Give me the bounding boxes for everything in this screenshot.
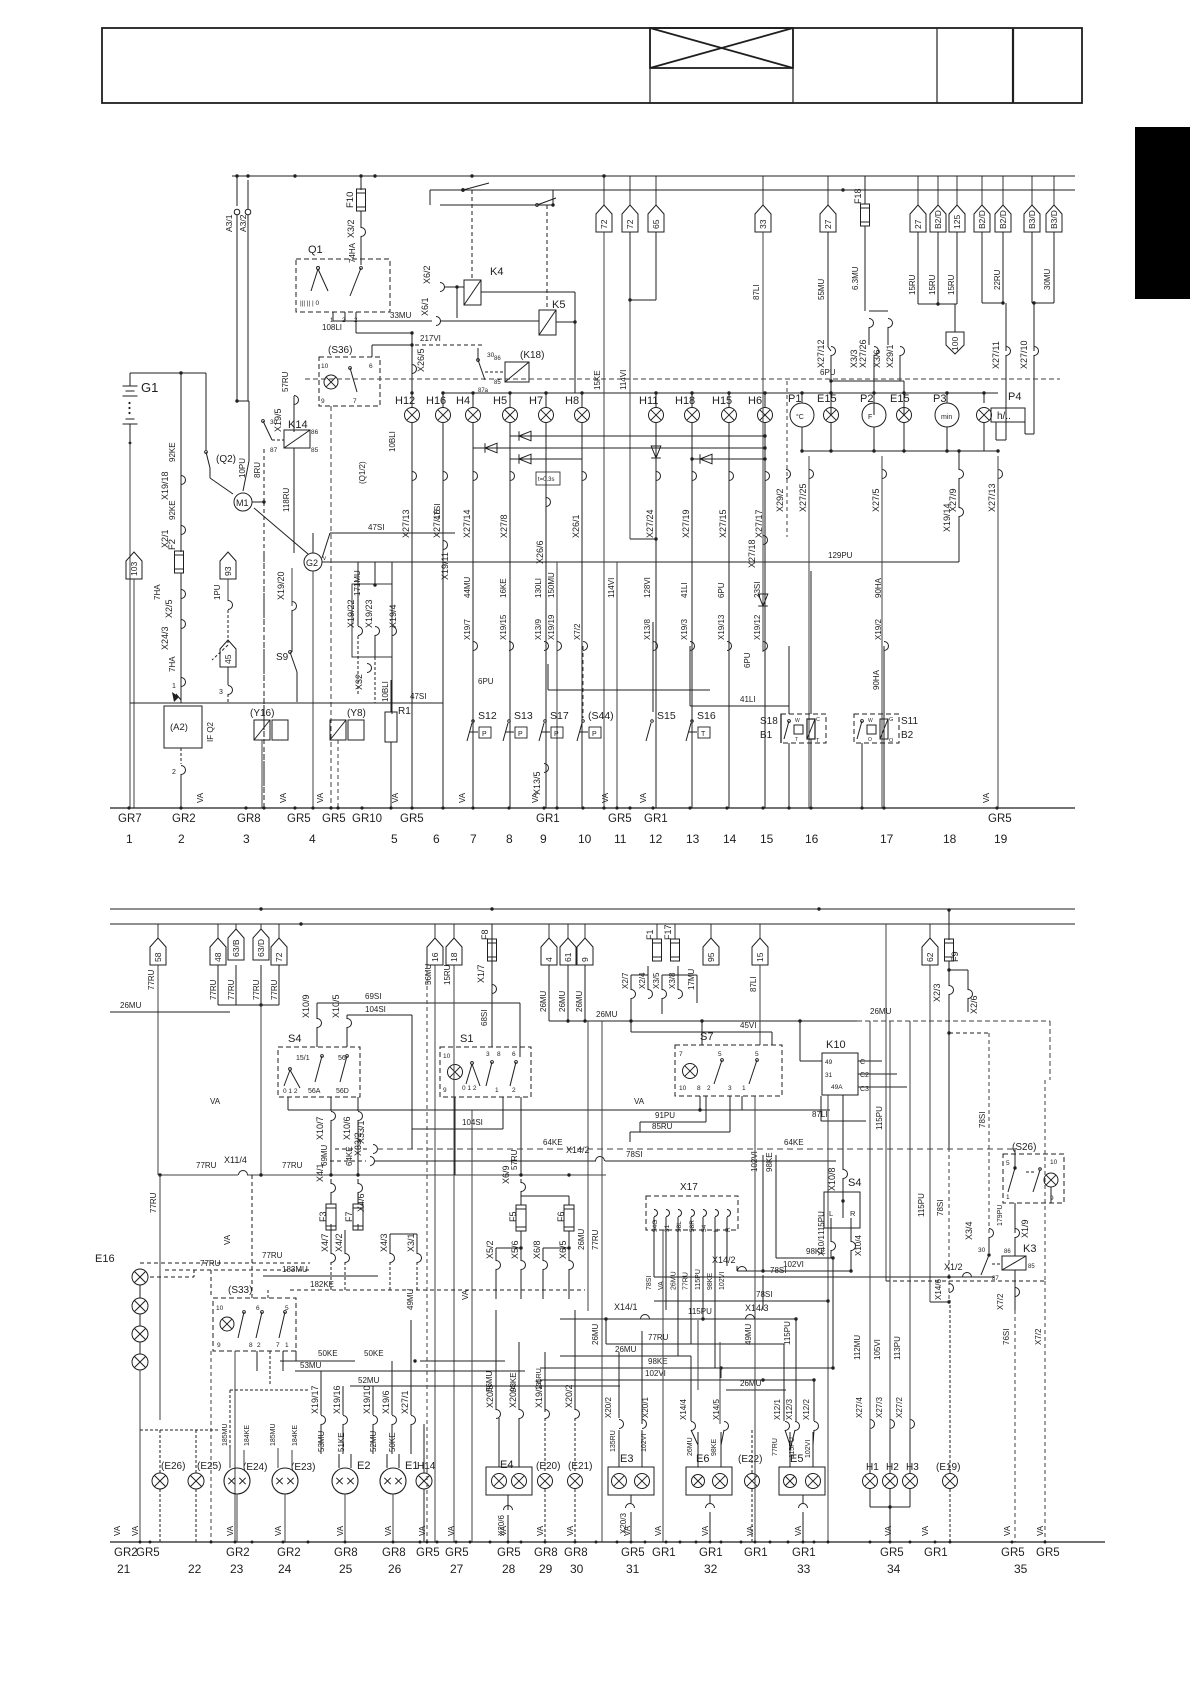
svg-text:L: L	[829, 1209, 833, 1218]
svg-text:31: 31	[825, 1072, 833, 1079]
svg-text:49MU: 49MU	[406, 1288, 415, 1310]
svg-text:33MU: 33MU	[390, 311, 412, 320]
svg-text:15: 15	[755, 952, 765, 962]
svg-text:VA: VA	[499, 1525, 508, 1536]
svg-text:GR1: GR1	[924, 1547, 948, 1559]
svg-text:27: 27	[450, 1562, 464, 1576]
svg-text:185MU: 185MU	[222, 1423, 229, 1446]
svg-text:12: 12	[649, 832, 663, 846]
svg-text:GR5: GR5	[287, 813, 311, 825]
svg-text:4: 4	[544, 957, 554, 962]
svg-text:X2/3: X2/3	[932, 983, 942, 1002]
svg-text:H4: H4	[456, 395, 470, 407]
svg-text:X27/11: X27/11	[991, 341, 1001, 369]
svg-text:H14: H14	[417, 1461, 436, 1472]
svg-text:30MU: 30MU	[1043, 268, 1052, 290]
svg-text:(S36): (S36)	[328, 345, 352, 356]
svg-text:S9: S9	[276, 652, 289, 663]
svg-text:135RU: 135RU	[610, 1430, 617, 1452]
svg-text:X13/8: X13/8	[643, 619, 652, 640]
svg-text:S4: S4	[848, 1177, 861, 1189]
svg-text:(Q1/2): (Q1/2)	[358, 461, 367, 484]
svg-text:25: 25	[339, 1562, 353, 1576]
svg-text:(E25): (E25)	[197, 1461, 221, 1472]
svg-text:115PU: 115PU	[789, 1437, 796, 1458]
svg-text:9: 9	[580, 957, 590, 962]
svg-text:15RU: 15RU	[908, 274, 917, 295]
svg-text:77RU: 77RU	[648, 1333, 669, 1342]
svg-text:B3/D: B3/D	[1049, 210, 1059, 229]
svg-text:P: P	[482, 731, 487, 738]
svg-text:GR8: GR8	[382, 1547, 406, 1559]
svg-text:F3: F3	[318, 1211, 328, 1222]
svg-text:GR5: GR5	[1001, 1547, 1025, 1559]
svg-text:C2: C2	[860, 1072, 869, 1079]
svg-text:X11/4: X11/4	[224, 1155, 247, 1165]
svg-text:85RU: 85RU	[652, 1122, 673, 1131]
svg-text:6: 6	[512, 1051, 516, 1058]
svg-text:87a: 87a	[478, 388, 489, 394]
svg-text:9: 9	[540, 832, 547, 846]
svg-text:26: 26	[388, 1562, 402, 1576]
svg-text:C: C	[860, 1059, 865, 1066]
svg-text:77RU: 77RU	[209, 979, 218, 1000]
svg-text:10BLI: 10BLI	[388, 431, 397, 452]
svg-text:26MU: 26MU	[558, 990, 567, 1012]
svg-text:104SI: 104SI	[365, 1005, 386, 1014]
svg-text:45: 45	[223, 654, 233, 664]
svg-text:GR8: GR8	[564, 1547, 588, 1559]
svg-text:7: 7	[470, 832, 477, 846]
svg-text:VA: VA	[794, 1525, 803, 1536]
svg-text:9: 9	[217, 1342, 221, 1349]
svg-text:P: P	[518, 731, 523, 738]
svg-text:VA: VA	[210, 1097, 221, 1106]
svg-text:64KE: 64KE	[543, 1138, 563, 1147]
svg-text:22: 22	[188, 1562, 202, 1576]
svg-text:6PU: 6PU	[743, 652, 752, 668]
svg-text:VA: VA	[884, 1525, 893, 1536]
svg-text:X19/10: X19/10	[362, 1385, 372, 1414]
svg-text:B2/D: B2/D	[933, 210, 943, 229]
svg-text:X19/2: X19/2	[874, 619, 883, 640]
svg-text:77RU: 77RU	[683, 1272, 690, 1290]
svg-text:26MU: 26MU	[740, 1379, 762, 1388]
svg-text:5: 5	[1006, 1160, 1010, 1167]
svg-text:26MU: 26MU	[870, 1007, 892, 1016]
svg-text:X27/26: X27/26	[858, 339, 868, 368]
svg-text:VA: VA	[639, 792, 648, 803]
svg-text:1: 1	[172, 683, 176, 690]
svg-text:X32: X32	[354, 674, 364, 690]
svg-text:VA: VA	[223, 1234, 232, 1245]
svg-text:29: 29	[539, 1562, 553, 1576]
svg-text:5: 5	[391, 832, 398, 846]
svg-text:VA: VA	[746, 1525, 755, 1536]
svg-text:125: 125	[952, 215, 962, 229]
svg-text:X1/7: X1/7	[476, 964, 486, 983]
svg-text:10: 10	[679, 1085, 687, 1092]
svg-text:26MU: 26MU	[577, 1228, 586, 1250]
svg-text:X27/13: X27/13	[987, 483, 997, 512]
svg-text:P: P	[554, 731, 559, 738]
svg-text:C: C	[816, 717, 820, 723]
svg-text:18: 18	[449, 952, 459, 962]
svg-text:77RU: 77RU	[772, 1438, 779, 1456]
svg-text:21: 21	[117, 1562, 131, 1576]
svg-text:34: 34	[887, 1562, 901, 1576]
svg-text:E15: E15	[817, 393, 837, 405]
svg-text:26MU: 26MU	[670, 1271, 677, 1290]
svg-text:X2/7: X2/7	[621, 972, 630, 989]
svg-text:X1/2: X1/2	[944, 1262, 963, 1272]
svg-text:1: 1	[126, 832, 133, 846]
svg-text:S12: S12	[478, 710, 497, 722]
svg-text:77RU: 77RU	[149, 1192, 158, 1213]
svg-text:X27/15: X27/15	[718, 509, 728, 538]
svg-text:7: 7	[276, 1342, 280, 1349]
svg-text:W: W	[868, 718, 873, 724]
svg-text:T: T	[795, 737, 798, 743]
svg-text:X14/3: X14/3	[745, 1303, 769, 1313]
svg-text:GR1: GR1	[792, 1547, 816, 1559]
svg-text:4: 4	[309, 832, 316, 846]
svg-text:(Y8): (Y8)	[347, 708, 366, 719]
svg-text:24: 24	[278, 1562, 292, 1576]
svg-text:185MU: 185MU	[270, 1423, 277, 1446]
svg-text:15RU: 15RU	[928, 274, 937, 295]
svg-text:VA: VA	[113, 1525, 122, 1536]
svg-text:54: 54	[701, 1224, 708, 1232]
svg-text:F8: F8	[480, 929, 490, 940]
svg-text:X4/3: X4/3	[379, 1233, 389, 1252]
svg-text:O: O	[889, 738, 894, 744]
svg-text:86: 86	[311, 429, 319, 436]
svg-text:77RU: 77RU	[282, 1161, 303, 1170]
svg-text:X27/2: X27/2	[895, 1397, 904, 1418]
svg-text:X1/9: X1/9	[1020, 1219, 1030, 1238]
svg-text:47SI: 47SI	[433, 504, 442, 520]
svg-text:X10/9: X10/9	[301, 994, 311, 1018]
svg-text:X19/6: X19/6	[381, 1390, 391, 1414]
svg-text:X19/4: X19/4	[388, 604, 398, 628]
svg-text:26MU: 26MU	[615, 1345, 637, 1354]
svg-text:X10/5: X10/5	[331, 994, 341, 1018]
svg-text:O: O	[868, 737, 872, 743]
svg-text:VA: VA	[701, 1525, 710, 1536]
svg-text:115PU: 115PU	[875, 1106, 884, 1130]
svg-text:h/..: h/..	[997, 411, 1011, 422]
svg-text:S11: S11	[901, 716, 918, 727]
svg-text:10: 10	[443, 1053, 451, 1060]
svg-text:56: 56	[338, 1055, 346, 1062]
svg-text:41LI: 41LI	[680, 582, 689, 598]
svg-text:R: R	[725, 1227, 732, 1232]
svg-text:55MU: 55MU	[817, 278, 826, 300]
svg-text:GR5: GR5	[621, 1547, 645, 1559]
svg-text:30: 30	[978, 1247, 986, 1254]
svg-text:P4: P4	[1008, 391, 1021, 403]
svg-text:31: 31	[626, 1562, 640, 1576]
svg-text:3: 3	[219, 689, 223, 696]
svg-text:F10: F10	[345, 192, 356, 208]
svg-text:H3: H3	[906, 1462, 919, 1473]
svg-text:X20/2: X20/2	[604, 1397, 613, 1418]
svg-text:114VI: 114VI	[619, 370, 628, 390]
svg-text:17: 17	[880, 832, 894, 846]
svg-text:26MU: 26MU	[687, 1437, 694, 1456]
svg-text:P1: P1	[788, 393, 801, 405]
svg-text:179PU: 179PU	[997, 1205, 1004, 1226]
svg-text:X19/23: X19/23	[364, 599, 374, 628]
svg-text:10PU: 10PU	[238, 458, 247, 478]
svg-text:H8: H8	[565, 395, 579, 407]
svg-text:8: 8	[497, 1051, 501, 1058]
svg-text:87LI: 87LI	[752, 284, 761, 300]
svg-text:77RU: 77RU	[262, 1251, 283, 1260]
svg-text:GR2: GR2	[226, 1547, 250, 1559]
svg-text:(E22): (E22)	[738, 1454, 762, 1465]
svg-text:44MU: 44MU	[463, 576, 472, 598]
svg-text:30: 30	[270, 419, 278, 426]
svg-text:H2: H2	[886, 1462, 899, 1473]
svg-text:X12/1: X12/1	[773, 1399, 782, 1420]
svg-text:85: 85	[1028, 1264, 1035, 1270]
svg-text:85: 85	[494, 380, 501, 386]
svg-text:A3/2: A3/2	[238, 214, 248, 232]
svg-text:F1: F1	[645, 929, 655, 940]
svg-text:t=0.3s: t=0.3s	[538, 477, 555, 483]
svg-text:F18: F18	[853, 188, 863, 204]
svg-text:VA: VA	[601, 792, 610, 803]
svg-text:VA: VA	[1036, 1525, 1045, 1536]
svg-text:7: 7	[353, 398, 357, 405]
svg-text:W: W	[795, 718, 800, 724]
svg-text:G: G	[889, 717, 893, 723]
svg-text:X10/4: X10/4	[854, 1235, 863, 1256]
svg-text:2: 2	[257, 1342, 261, 1349]
svg-text:115PU: 115PU	[688, 1307, 712, 1316]
svg-text:58R: 58R	[689, 1220, 696, 1232]
svg-text:R1: R1	[398, 706, 411, 717]
svg-text:X27/17: X27/17	[754, 509, 764, 538]
svg-text:1PU: 1PU	[213, 584, 222, 600]
svg-text:30: 30	[487, 352, 495, 359]
svg-text:184KE: 184KE	[244, 1425, 251, 1446]
svg-text:S13: S13	[514, 710, 533, 722]
svg-text:X19/20: X19/20	[276, 571, 286, 600]
svg-text:E4: E4	[500, 1459, 513, 1471]
svg-text:8: 8	[697, 1085, 701, 1092]
svg-text:7HA: 7HA	[168, 656, 177, 672]
svg-text:H18: H18	[675, 395, 695, 407]
svg-text:B2/D: B2/D	[998, 210, 1008, 229]
svg-text:16: 16	[430, 952, 440, 962]
svg-text:F6: F6	[556, 1211, 566, 1222]
svg-text:76SI: 76SI	[1002, 1329, 1011, 1345]
svg-text:32: 32	[704, 1562, 718, 1576]
svg-text:H16: H16	[426, 395, 446, 407]
svg-text:X6/9: X6/9	[501, 1165, 511, 1184]
svg-text:X27/1: X27/1	[400, 1390, 410, 1414]
svg-text:112MU: 112MU	[853, 1335, 862, 1360]
svg-text:98KE: 98KE	[509, 1372, 518, 1392]
svg-text:6PU: 6PU	[820, 368, 836, 377]
svg-text:X2/1: X2/1	[160, 529, 170, 548]
svg-text:IF Q2: IF Q2	[206, 721, 215, 742]
svg-text:92KE: 92KE	[168, 500, 177, 520]
svg-text:VA: VA	[536, 1525, 545, 1536]
svg-text:16: 16	[805, 832, 819, 846]
svg-text:B1: B1	[760, 730, 773, 741]
svg-text:X7/2: X7/2	[1034, 1328, 1043, 1345]
svg-text:72: 72	[599, 219, 609, 229]
svg-text:F: F	[868, 414, 872, 421]
svg-text:VA: VA	[623, 1525, 632, 1536]
svg-text:E3: E3	[620, 1453, 633, 1465]
svg-text:10: 10	[321, 363, 329, 370]
svg-text:X19/3: X19/3	[680, 619, 689, 640]
svg-text:GR5: GR5	[136, 1547, 160, 1559]
svg-text:93: 93	[223, 566, 233, 576]
svg-text:X19/18: X19/18	[160, 471, 170, 500]
svg-text:||| || | 0: ||| || | 0	[300, 300, 320, 307]
svg-text:56MU: 56MU	[485, 1370, 494, 1392]
svg-text:2: 2	[172, 769, 176, 776]
svg-text:P2: P2	[860, 393, 873, 405]
svg-text:86: 86	[1004, 1249, 1011, 1255]
svg-text:33: 33	[797, 1562, 811, 1576]
svg-text:98KE: 98KE	[806, 1247, 826, 1256]
svg-text:184KE: 184KE	[292, 1425, 299, 1446]
svg-text:56D: 56D	[336, 1088, 349, 1095]
svg-text:63/B: 63/B	[231, 939, 241, 957]
svg-text:X14/4: X14/4	[679, 1399, 688, 1420]
svg-text:18: 18	[943, 832, 957, 846]
svg-text:45VI: 45VI	[740, 1021, 756, 1030]
svg-text:(Y16): (Y16)	[250, 708, 274, 719]
svg-text:0 1 2: 0 1 2	[283, 1088, 298, 1095]
svg-text:VA: VA	[654, 1525, 663, 1536]
svg-text:6.3MU: 6.3MU	[851, 266, 860, 290]
svg-text:X27/8: X27/8	[499, 514, 509, 538]
svg-text:61: 61	[563, 952, 573, 962]
svg-text:115PU: 115PU	[783, 1321, 792, 1345]
svg-text:(K18): (K18)	[520, 350, 544, 361]
svg-text:X6/1: X6/1	[420, 297, 430, 316]
svg-text:10BLI: 10BLI	[381, 681, 390, 702]
svg-text:114VI: 114VI	[607, 578, 616, 598]
svg-text:B3/D: B3/D	[1027, 210, 1037, 229]
svg-text:98KE: 98KE	[648, 1357, 668, 1366]
svg-text:GR1: GR1	[652, 1547, 676, 1559]
svg-text:2: 2	[512, 1087, 516, 1094]
svg-text:X14/2: X14/2	[712, 1255, 736, 1265]
svg-text:H7: H7	[529, 395, 543, 407]
svg-text:31: 31	[664, 1224, 671, 1232]
svg-text:56MU: 56MU	[424, 963, 433, 985]
svg-text:69SI: 69SI	[365, 992, 381, 1001]
svg-text:X3/2: X3/2	[346, 219, 356, 238]
svg-text:16KE: 16KE	[499, 578, 508, 598]
svg-text:H6: H6	[748, 395, 762, 407]
svg-text:K14: K14	[288, 419, 308, 431]
svg-text:VA: VA	[921, 1525, 930, 1536]
svg-text:8: 8	[506, 832, 513, 846]
svg-text:S4: S4	[288, 1033, 301, 1045]
svg-text:47SI: 47SI	[410, 692, 426, 701]
svg-text:X19/19: X19/19	[547, 614, 556, 640]
svg-text:6: 6	[369, 363, 373, 370]
svg-text:98KE: 98KE	[765, 1152, 774, 1172]
svg-text:15KE: 15KE	[593, 370, 602, 390]
svg-text:GR5: GR5	[497, 1547, 521, 1559]
svg-text:(E23): (E23)	[291, 1462, 315, 1473]
svg-text:GR2: GR2	[114, 1547, 138, 1559]
svg-text:H12: H12	[395, 395, 415, 407]
svg-text:105VI: 105VI	[873, 1339, 882, 1360]
svg-text:VA: VA	[279, 792, 288, 803]
svg-text:GR5: GR5	[988, 813, 1012, 825]
svg-text:26MU: 26MU	[596, 1010, 618, 1019]
svg-text:57RU: 57RU	[281, 371, 290, 392]
svg-text:72: 72	[625, 219, 635, 229]
svg-text:78SI: 78SI	[756, 1290, 772, 1299]
svg-text:77RU: 77RU	[200, 1259, 221, 1268]
svg-text:VA: VA	[226, 1525, 235, 1536]
svg-text:P: P	[592, 731, 597, 738]
svg-text:6: 6	[433, 832, 440, 846]
svg-text:GR1: GR1	[699, 1547, 723, 1559]
svg-text:28: 28	[502, 1562, 516, 1576]
svg-text:X14/2: X14/2	[566, 1145, 590, 1155]
svg-text:GR1: GR1	[744, 1547, 768, 1559]
svg-text:0 1 2: 0 1 2	[462, 1085, 477, 1092]
svg-text:78SI: 78SI	[978, 1112, 987, 1128]
svg-text:63/D: 63/D	[256, 939, 266, 957]
svg-text:F7: F7	[344, 1211, 354, 1222]
svg-text:X19/17: X19/17	[310, 1385, 320, 1414]
svg-text:X10/7: X10/7	[315, 1116, 325, 1140]
svg-text:X6/2: X6/2	[422, 265, 432, 284]
svg-text:X27/5: X27/5	[871, 488, 881, 512]
svg-text:GR5: GR5	[322, 813, 346, 825]
svg-text:(A2): (A2)	[170, 722, 188, 733]
svg-text:H5: H5	[493, 395, 507, 407]
svg-text:X6/5: X6/5	[558, 1240, 568, 1259]
svg-text:X17: X17	[680, 1182, 698, 1193]
svg-text:65: 65	[651, 219, 661, 229]
svg-text:VA: VA	[391, 792, 400, 803]
svg-text:X6/8: X6/8	[532, 1240, 542, 1259]
svg-text:68SI: 68SI	[480, 1010, 489, 1026]
svg-text:87: 87	[270, 447, 278, 454]
svg-text:77RU: 77RU	[227, 979, 236, 1000]
svg-text:X19/11: X19/11	[440, 552, 450, 580]
svg-text:VA: VA	[461, 1289, 470, 1300]
svg-text:X3/5: X3/5	[652, 972, 661, 989]
svg-text:(E24): (E24)	[243, 1462, 267, 1473]
svg-text:23SI: 23SI	[753, 582, 762, 598]
svg-text:182KE: 182KE	[310, 1280, 334, 1289]
svg-text:1: 1	[495, 1087, 499, 1094]
svg-text:GR10: GR10	[352, 813, 382, 825]
svg-text:57RU: 57RU	[510, 1149, 519, 1170]
svg-text:102VI: 102VI	[805, 1440, 812, 1458]
svg-text:X26/6: X26/6	[535, 540, 545, 564]
svg-text:33: 33	[758, 219, 768, 229]
svg-text:GR7: GR7	[118, 813, 142, 825]
